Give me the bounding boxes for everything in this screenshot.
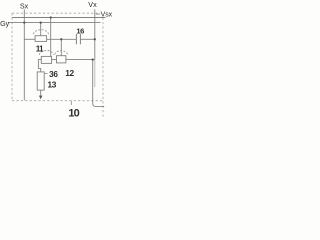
svg-text:13: 13 bbox=[47, 80, 56, 90]
svg-text:Gy: Gy bbox=[0, 19, 10, 28]
svg-text:16: 16 bbox=[76, 26, 84, 35]
svg-text:Vx: Vx bbox=[88, 0, 97, 9]
svg-text:Sx: Sx bbox=[20, 2, 29, 11]
svg-text:12: 12 bbox=[65, 68, 74, 78]
svg-text:11: 11 bbox=[36, 45, 44, 54]
svg-text:Vsx: Vsx bbox=[101, 12, 113, 19]
svg-text:36: 36 bbox=[49, 70, 58, 79]
svg-text:10: 10 bbox=[68, 107, 79, 119]
